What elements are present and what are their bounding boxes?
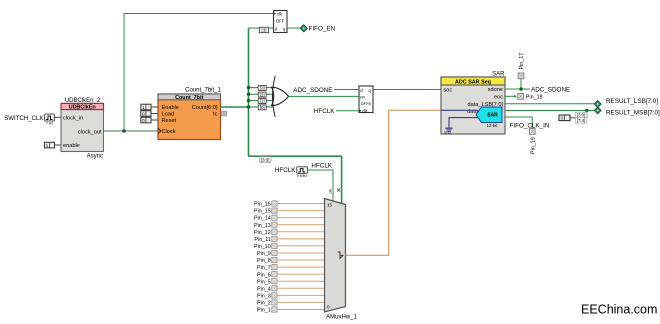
wire OR gate tap bit3 [249, 87, 274, 89]
pin Pin_16 [254, 201, 277, 208]
node tc unconnected marker [222, 111, 227, 116]
svg-text:Pin_16: Pin_16 [254, 202, 271, 208]
pin Pin_12 [254, 229, 277, 236]
pin Pin_11 [254, 236, 277, 243]
wire data_MSB to RESULT_MSB [505, 110, 595, 112]
svg-text:[3]: [3] [262, 28, 267, 33]
node bus tag [3:0] [260, 157, 272, 163]
svg-text:SAR: SAR [487, 113, 498, 119]
node net label FIFO_EN [309, 26, 336, 33]
node bit tag [1] [258, 99, 266, 104]
svg-text:sdone: sdone [488, 87, 503, 93]
svg-text:Vref: Vref [444, 131, 452, 135]
svg-text:clk: clk [277, 12, 283, 17]
svg-text:Pin_7: Pin_7 [257, 265, 271, 271]
component SAR ADC block [441, 72, 505, 134]
svg-text:DFF: DFF [276, 19, 285, 24]
svg-text:Count_7bit_1: Count_7bit_1 [185, 88, 221, 94]
node net label RESULT_LSB[7:0] [606, 98, 658, 105]
wire bus bit3 to top DFF d [249, 27, 274, 29]
wire Pin_4 to mux [277, 287, 325, 289]
wire clock_out net (UDBClkEn to Count clock) [104, 130, 159, 132]
pin Pin_1 [257, 307, 277, 314]
wire OR output to DFFE en [289, 95, 359, 97]
constant 0 for MSB high nibble [559, 115, 576, 121]
wire Pin_8 to mux [277, 259, 325, 261]
component UDBClkEn_2 [61, 98, 104, 160]
svg-text:Pin_11: Pin_11 [254, 237, 270, 243]
flip-flop U_DFFE [359, 86, 373, 114]
svg-text:Pin_15: Pin_15 [254, 209, 271, 215]
pin Pin_14 [254, 215, 277, 222]
wire Pin_5 to mux [277, 280, 325, 282]
svg-text:[0]: [0] [260, 105, 265, 110]
pin Pin_10 [254, 243, 277, 250]
wire Vref to SAR core [449, 118, 479, 128]
node mux select mark [337, 189, 340, 192]
svg-text:ADC_SDONE: ADC_SDONE [293, 87, 332, 94]
node net label RESULT_MSB[7:0] [606, 109, 660, 116]
node net label FIFO_CLK_IN [510, 123, 550, 130]
svg-text:Pin_1: Pin_1 [257, 308, 271, 314]
wire SWITCH_CLK to clock_in [55, 116, 62, 118]
pin Pin_15 [254, 208, 277, 215]
node bit tag [3] top DFF [260, 27, 269, 33]
svg-text:15: 15 [327, 203, 333, 208]
svg-text:enable: enable [63, 143, 80, 149]
svg-text:RESULT_MSB[7:0]: RESULT_MSB[7:0] [606, 109, 660, 116]
clock source HFCLK [275, 167, 308, 178]
svg-text:Count[6:0]: Count[6:0] [192, 105, 218, 111]
svg-text:[3:0]: [3:0] [261, 157, 270, 162]
pin Pin_5 [257, 279, 277, 286]
svg-text:EEChina.com: EEChina.com [581, 303, 657, 317]
wire mux output analog to SAR input [346, 110, 442, 255]
svg-text:0: 0 [327, 305, 330, 310]
node RESULT_LSB terminal diamond [594, 101, 601, 108]
wire Pin_7 to mux [277, 266, 325, 268]
node bit tag [3] [258, 86, 266, 91]
svg-text:soc: soc [444, 88, 453, 94]
constant 0 for Count Load [141, 111, 158, 117]
svg-text:Pin_18: Pin_18 [526, 95, 543, 101]
wire HFCLK stub to DFFE clk [314, 108, 359, 115]
svg-text:HFCLK: HFCLK [314, 108, 335, 115]
clock source SWITCH_CLK [4, 114, 54, 126]
node FIFO_EN terminal diamond [300, 25, 307, 32]
svg-text:ADC_SDONE: ADC_SDONE [531, 87, 570, 94]
wire Pin_15 to mux [277, 210, 325, 212]
wire Pin_3 to mux [277, 294, 325, 296]
wire analog input inside SAR [441, 109, 478, 111]
svg-text:clk: clk [328, 189, 333, 194]
wire OR gate tap bit2 [249, 93, 275, 95]
svg-text:[3]: [3] [260, 86, 265, 91]
wire sdone output [505, 88, 530, 90]
svg-text:Pin_12: Pin_12 [254, 230, 271, 236]
svg-text:[3:0]: [3:0] [577, 113, 585, 118]
svg-text:Pin_3: Pin_3 [257, 293, 271, 299]
wire Pin_17 drop [520, 79, 522, 89]
svg-text:Pin_6: Pin_6 [257, 272, 271, 278]
wire Pin_6 to mux [277, 273, 325, 275]
wire Pin_10 to mux [277, 245, 325, 247]
analog mux AMuxHw_1 [325, 199, 358, 321]
svg-text:Pin_5: Pin_5 [257, 279, 271, 285]
wire OR gate tap bit1 [249, 100, 275, 102]
svg-text:Pin_17: Pin_17 [519, 53, 525, 70]
node bus tag table [3:0]/[7:4] [576, 112, 587, 123]
svg-text:ADC SAR Seq: ADC SAR Seq [455, 79, 491, 85]
pin Pin_3 [257, 293, 277, 300]
or-gate U_OR 4-input [272, 76, 289, 117]
constant 1 for Count Enable [141, 104, 158, 110]
node bus taps [247, 86, 250, 109]
node mux clk pin label [328, 189, 333, 194]
wire ADC_SDONE stub to DFFE d [293, 87, 359, 94]
svg-text:Pin_9: Pin_9 [257, 251, 271, 257]
svg-text:Enable: Enable [162, 105, 179, 111]
svg-text:9 MHz: 9 MHz [297, 174, 308, 178]
svg-text:Clock: Clock [162, 129, 176, 135]
svg-text:DFFE: DFFE [361, 101, 372, 106]
node RESULT_MSB terminal diamond [594, 107, 601, 114]
flip-flop U_DFF1 (FIFO_EN) [274, 11, 288, 33]
node bit tag [2] [258, 92, 266, 97]
wire DFFE q to SAR soc [373, 89, 441, 91]
svg-text:[7:4]: [7:4] [577, 118, 585, 123]
svg-text:Pin_13: Pin_13 [254, 223, 271, 229]
svg-text:eoc: eoc [494, 94, 503, 100]
wire HFCLK to mux clk [308, 170, 334, 203]
wire Pin_9 to mux [277, 252, 325, 254]
wire Pin_13 to mux [277, 224, 325, 226]
svg-text:RESULT_LSB[7:0]: RESULT_LSB[7:0] [606, 98, 658, 105]
wire Pin_14 to mux [277, 217, 325, 219]
constant 0 for Count Reset [141, 117, 158, 123]
svg-text:Pin_8: Pin_8 [257, 258, 271, 264]
wire clock_out vertical riser to top [123, 14, 125, 132]
wire Count[6:0] bus output [221, 106, 249, 108]
wire OR gate tap bit0 [249, 106, 274, 108]
svg-text:[1]: [1] [260, 99, 265, 104]
svg-text:HFCLK: HFCLK [311, 162, 332, 169]
wire eoc to Pin_18 [505, 95, 517, 98]
wire DFF1 q to FIFO_EN terminal [287, 27, 301, 29]
wire constant1 to enable [55, 144, 62, 146]
svg-text:Pin_10: Pin_10 [254, 244, 271, 250]
svg-text:Pin_2: Pin_2 [257, 301, 271, 307]
power Vref symbol [444, 128, 453, 134]
wire bus to mux select with [3:0] tag [249, 156, 342, 205]
svg-text:12-bit: 12-bit [487, 123, 499, 128]
svg-text:? Hz: ? Hz [46, 122, 54, 126]
wire Pin_2 to mux [277, 301, 325, 303]
node clock_out junction [122, 129, 126, 133]
pin Pin_13 [254, 222, 277, 229]
node net label HFCLK [311, 162, 332, 169]
svg-text:Pin_14: Pin_14 [254, 216, 271, 222]
svg-text:Count_7bit: Count_7bit [175, 95, 203, 101]
svg-text:HFCLK: HFCLK [275, 167, 296, 174]
wire SAR clock out to Pin_19 [505, 117, 532, 129]
wire data_LSB to RESULT_LSB [505, 103, 595, 105]
svg-text:UDBClkEn: UDBClkEn [69, 105, 96, 111]
svg-text:SWITCH_CLK: SWITCH_CLK [4, 115, 43, 122]
svg-text:Reset: Reset [162, 118, 177, 124]
wire Pin_1 to mux [277, 309, 325, 311]
svg-text:tc: tc [213, 112, 218, 118]
svg-text:FIFO_EN: FIFO_EN [309, 26, 336, 33]
wire Pin_12 to mux [277, 231, 325, 233]
pin Pin_6 [257, 272, 277, 279]
node junction MSB merge [585, 109, 588, 119]
pin Pin_4 [257, 286, 277, 293]
node bit tag [0] [258, 105, 266, 110]
svg-text:Load: Load [162, 112, 174, 118]
svg-text:Async: Async [87, 154, 103, 160]
svg-text:[2]: [2] [260, 92, 265, 97]
watermark EEChina.com [581, 303, 657, 317]
svg-text:AMuxHw_1: AMuxHw_1 [326, 315, 357, 321]
node net label ADC_SDONE [531, 87, 570, 94]
svg-text:clk: clk [362, 109, 368, 114]
SAR core symbol [476, 107, 502, 128]
wire Pin_11 to mux [277, 238, 325, 240]
pin Pin_18 [518, 94, 543, 101]
constant 1 for UDB enable [45, 142, 55, 148]
svg-text:clock_out: clock_out [78, 129, 102, 135]
pin Pin_19 [529, 129, 536, 154]
svg-text:Pin_4: Pin_4 [257, 286, 271, 292]
node junction sdone/Pin_17 [519, 87, 522, 90]
pin Pin_8 [257, 257, 277, 264]
wire top run to DFF clk [124, 13, 274, 15]
pin Pin_17 [518, 53, 525, 79]
svg-text:en: en [360, 94, 365, 99]
pin Pin_9 [257, 250, 277, 257]
svg-text:Pin_19: Pin_19 [530, 137, 536, 154]
pin Pin_2 [257, 300, 277, 307]
pin Pin_7 [257, 265, 277, 272]
wire bus vertical [248, 28, 250, 156]
wire Pin_16 to mux [277, 203, 325, 205]
svg-text:clock_in: clock_in [63, 115, 83, 121]
component Count_7bit_1 [158, 88, 222, 140]
